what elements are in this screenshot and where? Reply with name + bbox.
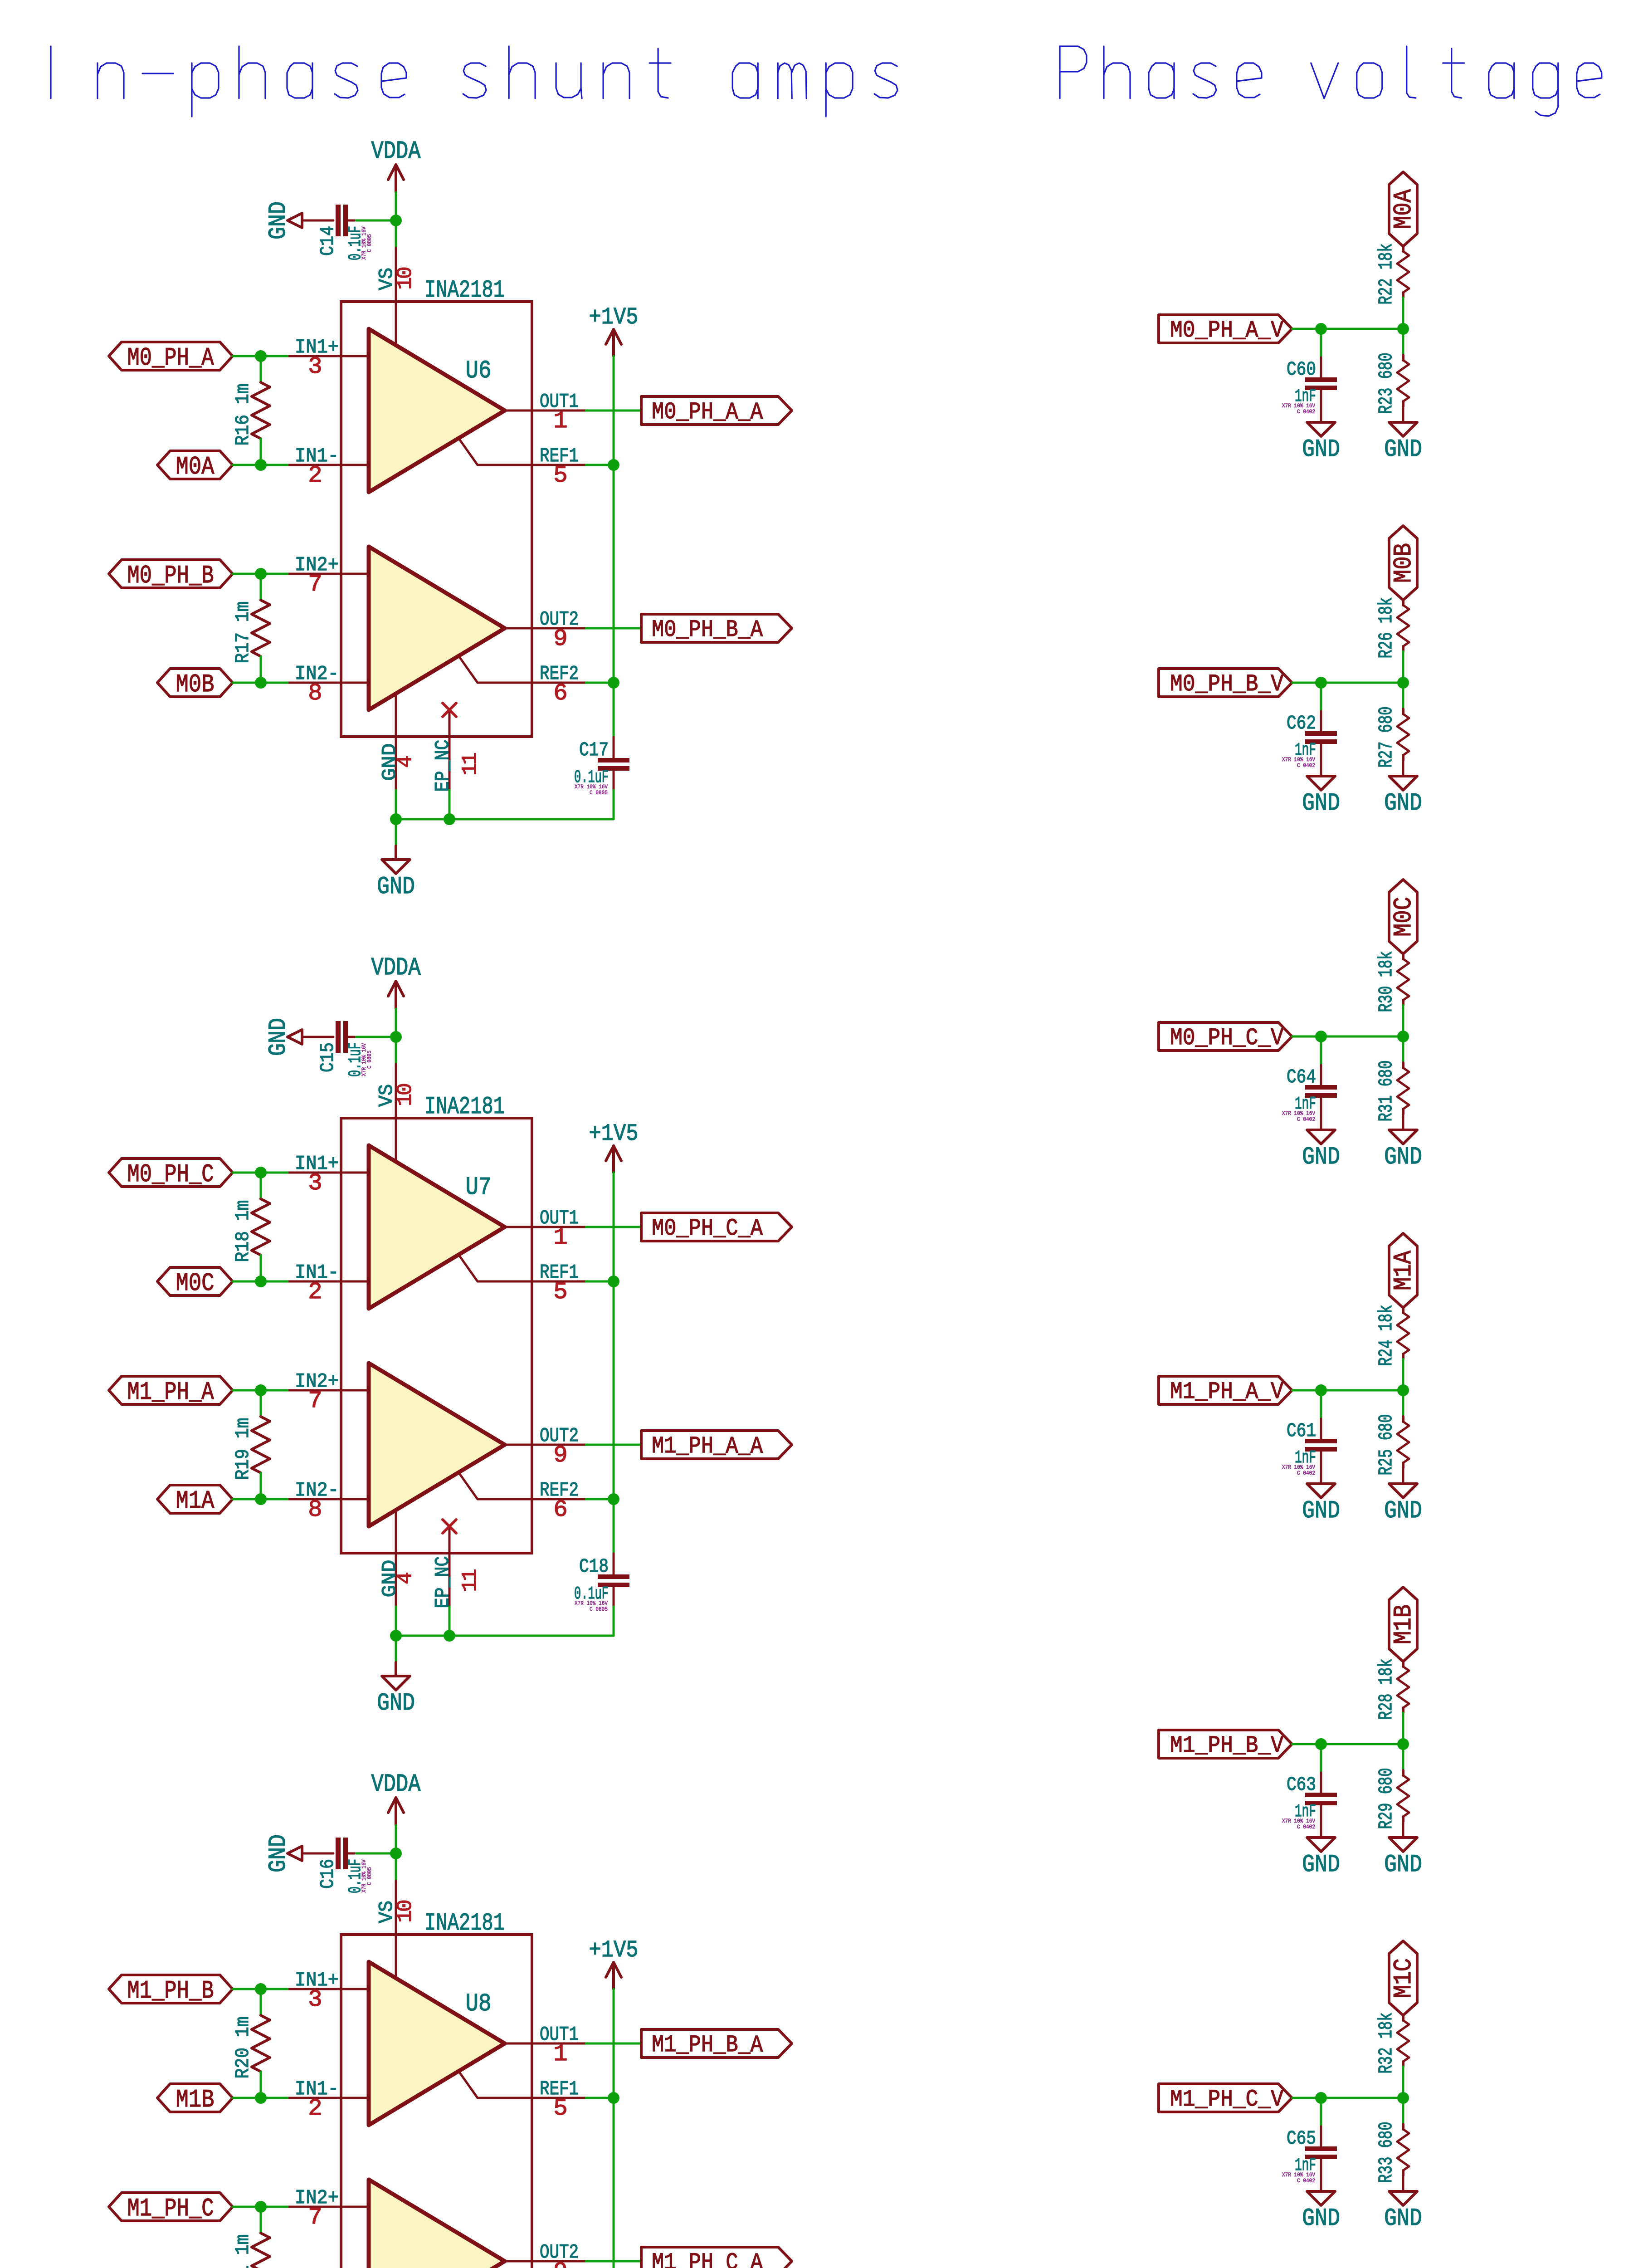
power symbol VDDA [371, 1770, 421, 1825]
svg-text:6: 6 [553, 1496, 566, 1523]
junction [608, 2092, 619, 2104]
power symbol GND [1302, 2191, 1340, 2233]
junction [608, 1276, 619, 1287]
junction [608, 459, 619, 471]
svg-text:GND: GND [265, 1018, 293, 1056]
hierarchical label M1_PH_A_A [641, 1431, 792, 1460]
wire [233, 1498, 288, 1501]
wire [395, 1009, 397, 1064]
svg-text:R19 1m: R19 1m [232, 1418, 254, 1480]
junction [1315, 323, 1327, 335]
junction [444, 1630, 455, 1642]
pin 3 IN1+ [288, 1969, 369, 2013]
wire [1320, 1744, 1322, 1773]
pin 8 IN2- [288, 663, 369, 707]
pin 10 VS [375, 248, 417, 345]
pin 3 IN1+ [288, 336, 369, 380]
pin 3 IN1+ [288, 1153, 369, 1197]
resistor R27 [1375, 707, 1409, 768]
resistor R29 [1375, 1768, 1409, 1829]
wire [1320, 1036, 1322, 1065]
amplifier B [369, 1363, 505, 1526]
svg-text:C15: C15 [317, 1042, 339, 1072]
svg-text:M1_PH_C_V: M1_PH_C_V [1170, 2086, 1283, 2113]
svg-text:EP_NC: EP_NC [432, 1556, 454, 1608]
junction [255, 1983, 267, 1995]
svg-text:1: 1 [553, 2041, 566, 2068]
wire [356, 1853, 396, 1855]
junction [1315, 1031, 1327, 1042]
wire [233, 2206, 288, 2208]
wire [1320, 1065, 1322, 1085]
svg-text:R30 18k: R30 18k [1375, 951, 1397, 1012]
junction [608, 1493, 619, 1505]
wire [233, 1172, 288, 1174]
wire [260, 1173, 262, 1199]
resistor R25 [1375, 1414, 1409, 1476]
hierarchical label M1_PH_B_V [1159, 1730, 1292, 1759]
wire [586, 1498, 614, 1501]
svg-text:M1A: M1A [176, 1486, 215, 1515]
hierarchical label M0_PH_A_V [1159, 315, 1292, 344]
junction [1397, 1031, 1409, 1042]
pin 2 IN1- [288, 1261, 369, 1305]
wire [586, 1281, 614, 1283]
resistor R17 [232, 600, 270, 664]
wire [1320, 683, 1322, 711]
title note [51, 46, 897, 117]
svg-text:GND: GND [1384, 436, 1422, 464]
svg-text:5: 5 [553, 1279, 566, 1305]
wire [1320, 357, 1322, 377]
svg-text:M0B: M0B [1389, 543, 1418, 583]
wire [1402, 651, 1404, 683]
hierarchical label M0_PH_C_V [1159, 1022, 1292, 1051]
svg-text:GND: GND [377, 873, 415, 901]
wire [613, 790, 615, 819]
svg-text:R27 680: R27 680 [1375, 707, 1397, 768]
wire [586, 1226, 641, 1228]
svg-text:M1C: M1C [1389, 1958, 1418, 1998]
wire [1402, 1114, 1404, 1130]
svg-text:C 0805: C 0805 [366, 1867, 373, 1885]
svg-text:C 0402: C 0402 [1297, 408, 1315, 415]
power symbol +1V5 [589, 304, 639, 356]
svg-text:C64: C64 [1287, 1066, 1316, 1088]
hierarchical label M1A [157, 1485, 233, 1515]
wire [1402, 683, 1404, 709]
svg-text:C61: C61 [1287, 1420, 1316, 1442]
hierarchical label M1_PH_C_V [1159, 2084, 1292, 2113]
junction [255, 1493, 267, 1505]
power symbol +1V5 [589, 1120, 639, 1173]
svg-text:+1V5: +1V5 [589, 304, 639, 331]
capacitor C17 [574, 739, 629, 796]
capacitor C62 [1282, 712, 1337, 769]
junction [1397, 2092, 1409, 2104]
svg-text:2: 2 [308, 462, 321, 489]
capacitor C64 [1282, 1066, 1337, 1123]
svg-text:M0C: M0C [1389, 897, 1418, 937]
wire [233, 355, 288, 357]
svg-text:U6: U6 [466, 357, 492, 385]
hierarchical label M1_PH_B_A [641, 2029, 792, 2058]
svg-text:M1_PH_A_V: M1_PH_A_V [1170, 1378, 1283, 1405]
hierarchical label M1B [1389, 1587, 1418, 1662]
junction [255, 1276, 267, 1287]
svg-text:10: 10 [394, 1901, 417, 1923]
svg-text:C 0805: C 0805 [366, 1051, 373, 1069]
svg-text:1: 1 [553, 1224, 566, 1251]
capacitor C60 [1282, 358, 1337, 415]
svg-text:C 0402: C 0402 [1297, 1116, 1315, 1123]
wire [233, 1988, 288, 1990]
pin 7 IN2+ [288, 2187, 369, 2231]
svg-text:10: 10 [394, 268, 417, 290]
svg-text:11: 11 [458, 753, 482, 776]
wire [1320, 1452, 1322, 1484]
wire [613, 1989, 615, 2268]
wire [1402, 2098, 1404, 2124]
svg-text:M0_PH_B_V: M0_PH_B_V [1170, 671, 1283, 698]
svg-text:C65: C65 [1287, 2127, 1316, 2150]
wire [449, 790, 451, 819]
wire [260, 356, 262, 382]
wire [260, 2207, 262, 2233]
wire [1320, 1098, 1322, 1130]
wire [1402, 298, 1404, 329]
wire [260, 439, 262, 465]
wire [586, 2260, 641, 2263]
hierarchical label M0_PH_C_A [641, 1213, 792, 1242]
wire [260, 1989, 262, 2015]
svg-text:EP_NC: EP_NC [432, 740, 454, 792]
wire [395, 1607, 397, 1662]
svg-text:9: 9 [553, 1442, 566, 1469]
svg-text:M0_PH_A_A: M0_PH_A_A [652, 399, 763, 425]
pin 5 REF1 [459, 1255, 586, 1305]
resistor R24 [1375, 1305, 1409, 1366]
power symbol GND [1384, 1130, 1422, 1171]
hierarchical label M1_PH_A [109, 1376, 233, 1407]
resistor R19 [232, 1417, 270, 1480]
junction [1397, 1384, 1409, 1396]
wire [1402, 1468, 1404, 1484]
wire [396, 818, 614, 821]
svg-text:M0_PH_C_A: M0_PH_C_A [652, 1215, 763, 1242]
wire [613, 1607, 615, 1636]
wire [395, 790, 397, 846]
junction [390, 215, 402, 226]
resistor R23 [1375, 353, 1409, 414]
no-connect mark [443, 703, 456, 717]
wire [1320, 1419, 1322, 1438]
hierarchical label M1A [1389, 1233, 1418, 1308]
wire [1320, 1390, 1322, 1419]
svg-text:M1B: M1B [1389, 1604, 1418, 1644]
wire [613, 1173, 615, 1554]
svg-text:10: 10 [394, 1084, 417, 1106]
svg-text:5: 5 [553, 462, 566, 489]
junction [255, 2092, 267, 2104]
wire [1292, 1036, 1403, 1038]
svg-text:C16: C16 [317, 1859, 339, 1889]
pin 2 IN1- [288, 445, 369, 489]
power symbol +1V5 [589, 1937, 639, 1989]
pin 7 IN2+ [288, 1370, 369, 1414]
wire [1292, 1743, 1403, 1745]
junction [1315, 2092, 1327, 2104]
svg-text:R22 18k: R22 18k [1375, 244, 1397, 305]
svg-text:GND: GND [265, 201, 293, 240]
power symbol GND [265, 201, 302, 240]
svg-text:M0A: M0A [176, 452, 215, 481]
svg-text:U8: U8 [466, 1989, 492, 2018]
svg-text:INA2181: INA2181 [424, 277, 505, 304]
power symbol GND [1302, 422, 1340, 464]
pin 6 REF2 [459, 1473, 586, 1523]
power symbol GND [265, 1834, 302, 1872]
wire [613, 737, 615, 758]
svg-text:7: 7 [308, 1388, 321, 1414]
wire [395, 1825, 397, 1881]
svg-text:M1B: M1B [176, 2085, 215, 2114]
wire [233, 464, 288, 466]
svg-text:M1_PH_B: M1_PH_B [127, 1976, 214, 2005]
svg-text:R24 18k: R24 18k [1375, 1305, 1397, 1366]
wire [586, 2097, 614, 2099]
pin 7 IN2+ [288, 554, 369, 598]
amplifier A [369, 1962, 505, 2125]
svg-text:C 0805: C 0805 [590, 789, 608, 796]
power symbol GND [377, 1676, 415, 1717]
hierarchical label M0_PH_B_A [641, 614, 792, 643]
wire [586, 1444, 641, 1446]
svg-text:M0_PH_B: M0_PH_B [127, 561, 214, 590]
wire [395, 1662, 397, 1676]
wire [1320, 711, 1322, 731]
wire [586, 682, 614, 684]
svg-text:R23 680: R23 680 [1375, 353, 1397, 414]
svg-text:GND: GND [1302, 1851, 1340, 1879]
hierarchical label M0A [1389, 172, 1418, 246]
hierarchical label M0C [157, 1267, 233, 1298]
svg-text:9: 9 [553, 2258, 566, 2268]
svg-text:M0A: M0A [1389, 189, 1418, 229]
capacitor C65 [1282, 2127, 1337, 2184]
svg-text:R29 680: R29 680 [1375, 1768, 1397, 1829]
svg-text:4: 4 [394, 1573, 417, 1584]
junction [1397, 1738, 1409, 1750]
hierarchical label M0C [1389, 880, 1418, 954]
svg-text:VDDA: VDDA [371, 137, 421, 166]
hierarchical label M0_PH_B [109, 560, 233, 590]
wire [1320, 2098, 1322, 2126]
svg-text:3: 3 [308, 1986, 321, 2013]
wire [1320, 1773, 1322, 1792]
junction [1315, 677, 1327, 689]
resistor R28 [1375, 1659, 1409, 1720]
wire [1402, 406, 1404, 422]
svg-text:M1_PH_A: M1_PH_A [127, 1378, 214, 1407]
op-amp U6 INA2181 [288, 248, 586, 792]
hierarchical label M1_PH_B [109, 1975, 233, 2005]
svg-text:R20 1m: R20 1m [232, 2017, 254, 2079]
svg-text:M0_PH_B_A: M0_PH_B_A [652, 616, 763, 643]
wire [260, 574, 262, 600]
svg-text:R21 1m: R21 1m [232, 2234, 254, 2268]
wire [1292, 1389, 1403, 1392]
wire [1320, 329, 1322, 357]
wire [449, 1607, 451, 1636]
wire [356, 1036, 396, 1038]
wire [613, 1554, 615, 1574]
svg-text:M0_PH_A: M0_PH_A [127, 343, 214, 372]
wire [260, 656, 262, 683]
junction [608, 677, 619, 689]
wire [613, 771, 615, 790]
junction [255, 2201, 267, 2213]
svg-text:R32 18k: R32 18k [1375, 2013, 1397, 2074]
svg-text:GND: GND [1302, 2205, 1340, 2233]
svg-text:M0_PH_A_V: M0_PH_A_V [1170, 317, 1283, 344]
capacitor C16 [317, 1838, 373, 1893]
resistor R21 [232, 2233, 270, 2268]
svg-text:GND: GND [1302, 1144, 1340, 1171]
pin 4 GND [379, 1510, 417, 1607]
pin 4 GND [379, 694, 417, 790]
wire [586, 627, 641, 630]
wire [613, 356, 615, 737]
svg-text:GND: GND [265, 1834, 293, 1872]
junction [390, 1848, 402, 1859]
power symbol VDDA [371, 137, 421, 192]
junction [390, 1630, 402, 1642]
junction [1315, 1738, 1327, 1750]
svg-text:2: 2 [308, 2095, 321, 2122]
hierarchical label M1_PH_C [109, 2193, 233, 2223]
svg-text:C18: C18 [579, 1555, 609, 1578]
wire [302, 1036, 333, 1038]
capacitor C18 [574, 1555, 629, 1613]
junction [255, 677, 267, 689]
svg-text:4: 4 [394, 756, 417, 768]
svg-text:1: 1 [553, 408, 566, 435]
svg-text:M1_PH_A_A: M1_PH_A_A [652, 1433, 763, 1460]
svg-text:M0_PH_C_V: M0_PH_C_V [1170, 1025, 1283, 1051]
wire [260, 1255, 262, 1281]
svg-text:5: 5 [553, 2095, 566, 2122]
amplifier B [369, 2180, 505, 2268]
svg-text:C62: C62 [1287, 712, 1316, 734]
svg-text:GND: GND [1302, 790, 1340, 817]
pin 6 REF2 [459, 656, 586, 707]
wire [233, 2097, 288, 2099]
pin 2 IN1- [288, 2078, 369, 2122]
svg-text:U7: U7 [466, 1173, 492, 1202]
svg-text:C 0402: C 0402 [1297, 1470, 1315, 1476]
wire [586, 464, 614, 466]
power symbol GND [1384, 2191, 1422, 2233]
svg-text:VDDA: VDDA [371, 1770, 421, 1799]
svg-text:R33 680: R33 680 [1375, 2122, 1397, 2183]
svg-text:R18 1m: R18 1m [232, 1200, 254, 1262]
svg-text:C 0402: C 0402 [1297, 2177, 1315, 2184]
junction [1397, 323, 1409, 335]
svg-text:VDDA: VDDA [371, 953, 421, 982]
svg-text:3: 3 [308, 353, 321, 380]
svg-text:8: 8 [308, 680, 321, 707]
wire [260, 2072, 262, 2098]
power symbol GND [1384, 776, 1422, 817]
pin 10 VS [375, 1064, 417, 1162]
hierarchical label M0B [157, 669, 233, 699]
wire [1402, 2067, 1404, 2098]
power symbol GND [1302, 1838, 1340, 1879]
wire [1292, 2097, 1403, 2099]
svg-text:8: 8 [308, 1496, 321, 1523]
svg-text:INA2181: INA2181 [424, 1910, 505, 1937]
svg-text:+1V5: +1V5 [589, 1120, 639, 1147]
wire [1320, 2126, 1322, 2146]
svg-text:M1_PH_B_A: M1_PH_B_A [652, 2032, 763, 2058]
wire [1320, 390, 1322, 422]
wire [395, 192, 397, 248]
svg-text:C 0402: C 0402 [1297, 762, 1315, 769]
hierarchical label M0_PH_A [109, 342, 233, 372]
pin 1 OUT1 [505, 1207, 586, 1251]
svg-text:R31 680: R31 680 [1375, 1061, 1397, 1122]
resistor R26 [1375, 597, 1409, 659]
svg-text:R16 1m: R16 1m [232, 384, 254, 446]
svg-text:C14: C14 [317, 226, 339, 256]
pin 9 OUT2 [505, 608, 586, 652]
wire [1402, 1713, 1404, 1744]
svg-text:M1_PH_C_A: M1_PH_C_A [652, 2249, 763, 2268]
resistor R33 [1375, 2122, 1409, 2183]
svg-text:R17 1m: R17 1m [232, 601, 254, 664]
wire [1402, 1744, 1404, 1770]
wire [233, 1389, 288, 1392]
junction [390, 1031, 402, 1043]
svg-text:GND: GND [377, 1690, 415, 1717]
hierarchical label M0B [1389, 526, 1418, 600]
capacitor C15 [317, 1021, 373, 1077]
hierarchical label M1B [157, 2084, 233, 2114]
wire [1402, 1390, 1404, 1417]
svg-text:M1_PH_B_V: M1_PH_B_V [1170, 1732, 1283, 1759]
junction [1315, 1384, 1327, 1396]
svg-text:GND: GND [1384, 1144, 1422, 1171]
capacitor C63 [1282, 1774, 1337, 1830]
pin 11 EP_NC [432, 1526, 482, 1608]
hierarchical label M0_PH_C [109, 1158, 233, 1189]
wire [1402, 2175, 1404, 2191]
resistor R31 [1375, 1061, 1409, 1122]
wire [586, 410, 641, 412]
svg-text:7: 7 [308, 571, 321, 598]
svg-text:GND: GND [1384, 790, 1422, 817]
svg-text:M0_PH_C: M0_PH_C [127, 1160, 214, 1189]
pin 5 REF1 [459, 2072, 586, 2122]
resistor R30 [1375, 951, 1409, 1012]
pin 8 IN2- [288, 1479, 369, 1523]
hierarchical label M1_PH_A_V [1159, 1376, 1292, 1405]
junction [255, 1167, 267, 1178]
resistor R18 [232, 1199, 270, 1262]
svg-text:R25 680: R25 680 [1375, 1414, 1397, 1476]
power symbol VDDA [371, 953, 421, 1009]
